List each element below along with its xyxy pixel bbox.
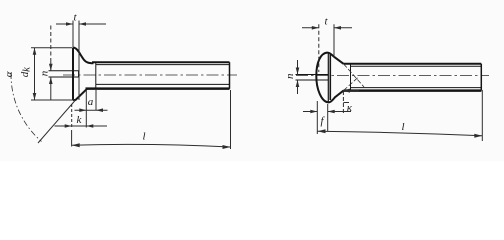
svg-text:f: f: [320, 115, 325, 127]
svg-text:t: t: [324, 15, 328, 27]
svg-text:n: n: [284, 73, 296, 79]
svg-text:l: l: [142, 131, 145, 143]
svg-text:k: k: [77, 114, 83, 126]
svg-text:l: l: [401, 121, 404, 133]
svg-text:n: n: [39, 70, 51, 76]
svg-text:α: α: [3, 71, 15, 77]
svg-text:к: к: [347, 102, 353, 114]
svg-text:t: t: [73, 11, 77, 23]
svg-text:a: a: [88, 96, 94, 108]
svg-text:k: k: [21, 66, 33, 72]
